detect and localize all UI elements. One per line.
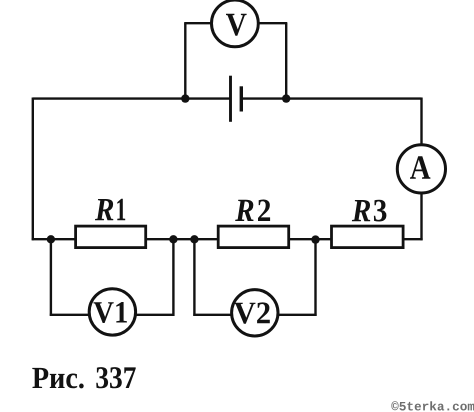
voltmeter V circle [212,0,259,47]
voltmeter V1 circle [89,289,135,335]
resistor R1 box [76,226,146,248]
voltmeter V2 circle [232,290,278,336]
wire: left vertical rail [32,98,34,241]
voltmeter V2 letter [234,302,270,323]
node: junction dot left of R2 (V2 tap) [190,235,198,243]
wire: V1 branch left horizontal [50,314,95,316]
node: junction dot left of R1 (V1 tap) [47,235,55,243]
wire: voltmeter V branch left vertical [184,23,186,98]
wire: top rail right segment (battery short plate to right corner) [241,97,421,99]
wire: V2 branch left horizontal [193,314,237,316]
wire: V2 branch right vertical [314,239,316,316]
wire: voltmeter V branch left horizontal [184,22,220,24]
watermark ©5terka.com [391,401,474,410]
ammeter A letter [410,156,430,178]
resistor R3 label [352,200,387,222]
resistor R2 label [235,200,270,222]
wire: V2 branch right horizontal [272,314,317,316]
wire: right vertical rail upper (top corner to ammeter) [420,98,422,148]
voltmeter V1 letter [94,302,127,323]
node: junction dot on top rail, right voltmeter tap [282,94,290,102]
battery long plate [229,76,232,122]
wire: resistor row segment R3 to right corner [403,238,423,240]
resistor R2 box [218,226,289,248]
wire: V1 branch left vertical [50,239,52,316]
wire: V1 branch right horizontal [130,314,175,316]
caption: figure label "Рис." [32,368,83,389]
node: junction dot on top rail, left voltmeter tap [181,94,189,102]
wire: top rail left segment (left corner to battery long plate) [33,97,231,99]
wire: resistor row segment R2 to R3 [289,238,332,240]
voltmeter V letter [226,14,247,36]
wire: resistor row segment R1 to R2 [146,238,219,240]
wire: V2 branch left vertical [193,239,195,316]
wire: V1 branch right vertical [172,239,174,316]
wire: voltmeter V branch right horizontal [250,22,287,24]
node: junction dot right of R2 (V2 tap) [311,235,319,243]
battery short plate [240,86,243,111]
wire: right vertical rail lower (ammeter to bottom corner) [420,191,422,240]
node: junction dot right of R1 (V1 tap) [169,235,177,243]
wire: resistor row segment left corner to R1 [32,238,76,240]
resistor R1 label [95,199,125,220]
wire: voltmeter V branch right vertical [285,23,287,98]
caption: figure number "337" [96,367,135,388]
ammeter A circle [397,145,445,193]
resistor R3 box [332,226,404,248]
